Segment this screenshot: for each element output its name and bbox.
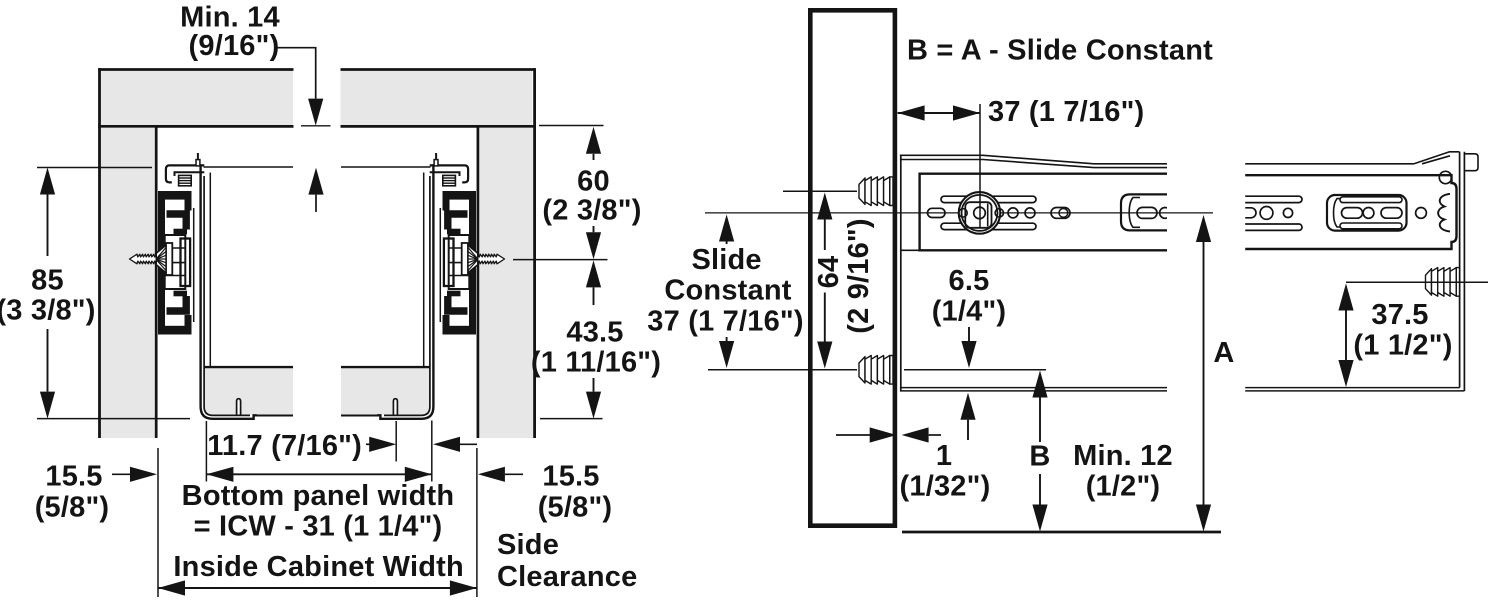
small holes [1008, 208, 1018, 218]
drawer top edge lines [204, 166, 294, 168]
drawer slide cross-section, LEFT [130, 153, 257, 419]
dim 37.5 (1 1/2") [1346, 281, 1488, 283]
svg-text:(1/32"): (1/32") [900, 471, 991, 503]
cabinet rail body [920, 174, 1167, 251]
lower channel hook [174, 291, 188, 297]
drawer rail body [1245, 175, 1457, 249]
svg-text:(3 3/8"): (3 3/8") [0, 295, 96, 327]
drawer inner wall line [209, 173, 211, 367]
lower euro screw [859, 356, 893, 385]
dim 64 (2 9/16") [817, 193, 832, 220]
dim 85 (3 3/8") [37, 167, 152, 169]
drawer member protruding [1121, 194, 1170, 230]
drawer bottom panel (left part) [205, 367, 294, 415]
svg-text:Slide: Slide [691, 244, 761, 276]
svg-text:(1/2"): (1/2") [1086, 471, 1161, 503]
svg-text:64: 64 [813, 256, 845, 289]
slide segment 1 [900, 155, 1171, 392]
locating pin [196, 160, 200, 166]
spring latch [1438, 194, 1450, 232]
svg-text:(1 1/2"): (1 1/2") [1353, 330, 1452, 362]
screw hole ref line (upper screw) [783, 190, 857, 192]
svg-text:(1 11/16"): (1 11/16") [531, 347, 661, 379]
mounting screw in panel [130, 245, 167, 272]
dowel notch [393, 399, 397, 416]
svg-text:Min. 14: Min. 14 [180, 1, 280, 33]
top profile edges [900, 155, 1167, 164]
back edge of slide [900, 155, 902, 392]
svg-text:B: B [1029, 441, 1050, 473]
slide segment 2 [1238, 152, 1478, 391]
svg-text:11.7 (7/16"): 11.7 (7/16") [207, 430, 362, 462]
leader + down arrow into top gap [277, 48, 316, 99]
lower screw ref line [708, 369, 857, 371]
svg-text:15.5: 15.5 [542, 461, 599, 493]
cabinet top panel (left part) [98, 70, 293, 127]
dowel notch [237, 399, 241, 416]
svg-text:37 (1 7/16"): 37 (1 7/16") [988, 96, 1144, 128]
svg-text:Min. 12: Min. 12 [1073, 440, 1173, 472]
cabinet bottom line [902, 531, 1221, 534]
cabinet-member back plate [158, 191, 165, 335]
drawer side member [201, 164, 257, 418]
slide centre line [705, 212, 1213, 214]
mid channel boxes [165, 235, 186, 289]
dim 60 (2 3/8") [539, 125, 604, 127]
rear euro screw [1426, 268, 1460, 297]
slots left group [1240, 196, 1302, 202]
svg-text:(9/16"): (9/16") [189, 30, 280, 62]
bottom flange double line [900, 387, 1167, 389]
dim 43.5 (1 11/16") [586, 260, 601, 287]
middle slot plate [1327, 195, 1407, 231]
reference hole (large) [959, 192, 1001, 234]
svg-text:(1/4"): (1/4") [932, 296, 1007, 328]
svg-text:43.5: 43.5 [566, 317, 623, 349]
left side panel [100, 68, 157, 438]
right side panel [478, 68, 535, 438]
dim bottom panel width [205, 421, 207, 482]
cabinet side wall [810, 10, 895, 525]
up arrow to drawer top edge in gap [308, 168, 323, 195]
drawer bottom panel (right part) [341, 367, 430, 415]
svg-text:6.5: 6.5 [949, 265, 990, 297]
adjustment clip (hatched) [179, 175, 192, 185]
svg-text:B = A - Slide Constant: B = A - Slide Constant [907, 35, 1213, 67]
drawer slide cross-section, RIGHT (mirrored) [377, 153, 504, 419]
svg-text:A: A [1213, 337, 1234, 369]
svg-text:1: 1 [936, 440, 952, 472]
svg-text:(2 9/16"): (2 9/16") [843, 218, 875, 334]
upper euro screw [859, 177, 893, 206]
svg-text:(5/8"): (5/8") [538, 491, 613, 523]
svg-text:(5/8"): (5/8") [35, 491, 110, 523]
svg-text:Inside Cabinet Width: Inside Cabinet Width [173, 551, 464, 583]
thin rail wall [193, 208, 195, 322]
svg-text:37 (1 7/16"): 37 (1 7/16") [647, 306, 803, 338]
drawer member top hook [166, 165, 204, 182]
profile top bar [158, 191, 192, 200]
profile bottom bar [185, 315, 192, 334]
svg-text:(2 3/8"): (2 3/8") [542, 195, 641, 227]
mounting slots [941, 196, 1036, 202]
rear bracket of drawer member [1439, 171, 1451, 183]
cabinet top panel (right part) [341, 70, 535, 127]
top edges + ramp [1245, 163, 1414, 165]
drawer bottom line [904, 369, 1046, 371]
screw boss fan [156, 246, 166, 272]
svg-text:= ICW - 31 (1 1/4"): = ICW - 31 (1 1/4") [194, 511, 443, 543]
bottom flange double line [1245, 387, 1460, 389]
svg-text:Clearance: Clearance [497, 561, 637, 593]
svg-text:Bottom panel width: Bottom panel width [182, 480, 455, 512]
svg-text:Constant: Constant [664, 275, 791, 307]
svg-text:Side: Side [497, 529, 559, 561]
svg-text:37.5: 37.5 [1371, 299, 1428, 331]
svg-text:85: 85 [31, 265, 64, 297]
upper channel hook [167, 214, 187, 230]
svg-text:15.5: 15.5 [45, 461, 102, 493]
svg-text:60: 60 [577, 166, 610, 198]
